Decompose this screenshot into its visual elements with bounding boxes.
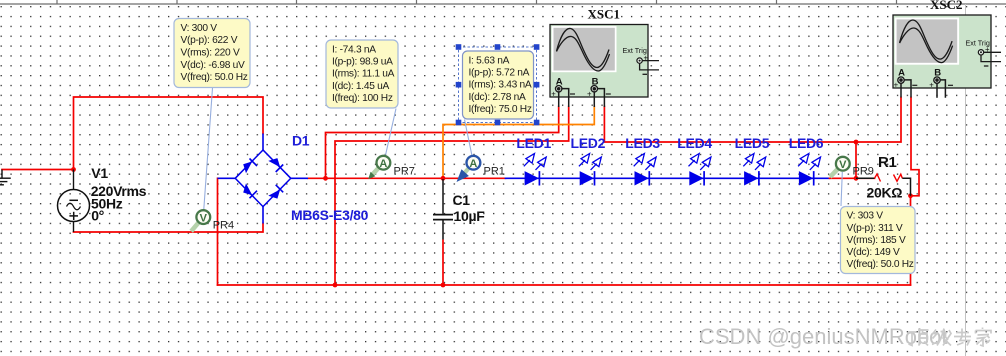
diode upper-right (arrow to right corner) [268, 158, 280, 167]
probe PR9 callout line [841, 172, 842, 206]
wire: V1 bottom to bridge bottom [74, 224, 264, 233]
svg-text:C1: C1 [453, 192, 471, 208]
svg-text:LED3: LED3 [625, 135, 660, 151]
svg-text:R1: R1 [878, 154, 897, 171]
wire: R1 top node down from long wire [855, 142, 857, 178]
svg-text:I(dc): 2.78 nA: I(dc): 2.78 nA [469, 92, 526, 103]
V1 labels [91, 165, 147, 224]
svg-text:I(dc): 1.45 uA: I(dc): 1.45 uA [332, 81, 389, 92]
junction: C1 bottom on rail [441, 283, 446, 288]
wire: XSC1 A+ drop to DC+ node [326, 107, 559, 179]
wire: bridge left (DC-) down to bottom rail [217, 178, 219, 285]
watermark CSDN @geniusNMRobot顶级专家 [699, 324, 991, 349]
svg-text:PR4: PR4 [213, 220, 234, 232]
sheet border top ruler [0, 0, 1006, 4]
diode lower-left (arrow to bottom corner) [243, 183, 252, 195]
ground [0, 170, 11, 185]
wire: XSC1 B+ drop to C1 top node (orange) [443, 107, 594, 179]
svg-text:0°: 0° [91, 208, 104, 224]
sheet border right edge [965, 4, 967, 356]
wire: LED chain (blue) [506, 177, 830, 179]
svg-text:A: A [469, 158, 477, 170]
XSC1 body [550, 25, 648, 98]
svg-text:LED2: LED2 [571, 135, 606, 151]
svg-text:LED5: LED5 [735, 135, 770, 151]
家 [976, 328, 992, 347]
svg-text:XSC1: XSC1 [588, 7, 621, 22]
svg-text:PR1: PR1 [484, 166, 505, 178]
svg-text:V(rms): 185 V: V(rms): 185 V [847, 235, 906, 246]
selection handles [456, 44, 540, 125]
resistor R1 [856, 174, 911, 196]
probe PR1 (current, selected) [457, 156, 505, 182]
svg-text:V(freq): 50.0 Hz: V(freq): 50.0 Hz [181, 72, 248, 83]
svg-text:I(freq): 75.0 Hz: I(freq): 75.0 Hz [469, 104, 532, 115]
junction: long wire to R1 top [854, 140, 859, 145]
XSC1 screen with waveforms [552, 26, 617, 72]
XSC2 screen with waveforms [895, 18, 959, 65]
svg-text:10µF: 10µF [454, 208, 486, 224]
svg-text:+: + [587, 89, 592, 98]
svg-text:PR7: PR7 [394, 166, 415, 178]
svg-text:V(p-p): 622 V: V(p-p): 622 V [181, 35, 238, 46]
svg-text:I(freq): 100 Hz: I(freq): 100 Hz [332, 93, 393, 104]
probe PR9 (voltage) [830, 157, 874, 178]
LED4 [677, 135, 712, 185]
svg-text:V(dc): -6.98 uV: V(dc): -6.98 uV [181, 60, 246, 71]
专 [954, 329, 971, 346]
svg-text:I(rms): 11.1 uA: I(rms): 11.1 uA [332, 69, 395, 80]
svg-text:V(dc): 149 V: V(dc): 149 V [847, 247, 901, 258]
XSC2 body [893, 15, 991, 88]
measurement box PR7 [326, 40, 398, 108]
svg-text:+: + [551, 89, 556, 98]
svg-text:LED6: LED6 [789, 135, 824, 151]
measurement box PR9 (output node) [841, 207, 916, 274]
wire: XSC1 A- drop to bottom rail [335, 107, 569, 286]
wire: bottom rail up right side to R1 node (behind probe box) [910, 196, 912, 285]
wire: V1 top up-over-down to bridge top [74, 97, 264, 170]
svg-text:V: V [839, 159, 847, 171]
oscilloscope XSC1 [550, 7, 659, 107]
级 [932, 329, 951, 346]
AC source V1 [58, 170, 90, 233]
probe PR4 callout line [204, 88, 213, 209]
svg-text:20KΩ: 20KΩ [867, 184, 903, 200]
svg-text:V1: V1 [91, 165, 108, 181]
XSC2 pin stubs [900, 83, 902, 98]
probe PR7 (current) [368, 156, 415, 179]
junction: R1 right node [908, 193, 913, 198]
svg-text:I: 5.63 nA: I: 5.63 nA [469, 55, 510, 66]
probe PR4 (voltage) [191, 210, 234, 231]
capacitor C1 [433, 179, 453, 240]
svg-text:I(p-p): 98.9 uA: I(p-p): 98.9 uA [332, 57, 393, 68]
junction: DC+ / scope A+ node [323, 176, 328, 181]
probe PR1 callout line [465, 120, 472, 155]
svg-text:I(rms): 3.43 nA: I(rms): 3.43 nA [469, 80, 532, 91]
svg-text:V: 303 V: V: 303 V [847, 211, 884, 222]
junction: A- on rail [333, 283, 338, 288]
XSC1 pin stubs [558, 91, 560, 107]
diode lower-right (arrow to right corner) [268, 189, 280, 198]
svg-text:LED1: LED1 [516, 135, 551, 151]
LED2 [571, 135, 606, 185]
wire: XSC1 B- drop across to XSC2 A+ [604, 98, 901, 143]
svg-text:XSC2: XSC2 [930, 0, 963, 12]
svg-text:V: V [200, 212, 208, 224]
diode upper-left (arrow to top corner) [243, 161, 252, 173]
svg-text:V(p-p): 311 V: V(p-p): 311 V [847, 223, 903, 234]
svg-text:MB6S-E3/80: MB6S-E3/80 [291, 207, 369, 223]
wire: bottom rail [218, 284, 911, 286]
LED6 [789, 135, 824, 185]
svg-text:A: A [379, 158, 387, 170]
svg-text:V(rms): 220 V: V(rms): 220 V [181, 48, 240, 59]
LED1 [516, 135, 551, 185]
junction: R1 left node [854, 176, 859, 181]
junction: C1 top node [441, 176, 446, 181]
wire: bridge right (DC+) to LED1 anode [308, 177, 506, 179]
measurement box PR4 (V1 node) [174, 19, 250, 88]
wire: ground to V1 top node [2, 169, 74, 171]
svg-text:I(p-p): 5.72 nA: I(p-p): 5.72 nA [469, 68, 530, 79]
svg-text:+: + [894, 81, 899, 90]
measurement box PR1 (selected) [456, 44, 540, 125]
oscilloscope XSC2 [893, 0, 1001, 98]
LED3 [625, 135, 660, 185]
LED5 [735, 135, 770, 185]
顶 [909, 330, 929, 346]
svg-text:PR9: PR9 [853, 166, 874, 178]
svg-text:LED4: LED4 [677, 135, 712, 151]
svg-text:I: -74.3 nA: I: -74.3 nA [332, 44, 376, 55]
svg-text:D1: D1 [292, 132, 310, 148]
svg-text:+: + [929, 81, 934, 90]
wire: LED6 cathode to R1 left [830, 177, 875, 179]
probe PR7 callout line [386, 109, 396, 155]
junction: V1 top node [71, 167, 76, 172]
bridge rectifier D1 [218, 134, 309, 224]
wire: XSC2 A- drop to R1 right node [911, 98, 920, 196]
svg-text:V: 300 V: V: 300 V [181, 23, 218, 34]
svg-text:V(freq): 50.0 Hz: V(freq): 50.0 Hz [847, 259, 914, 270]
